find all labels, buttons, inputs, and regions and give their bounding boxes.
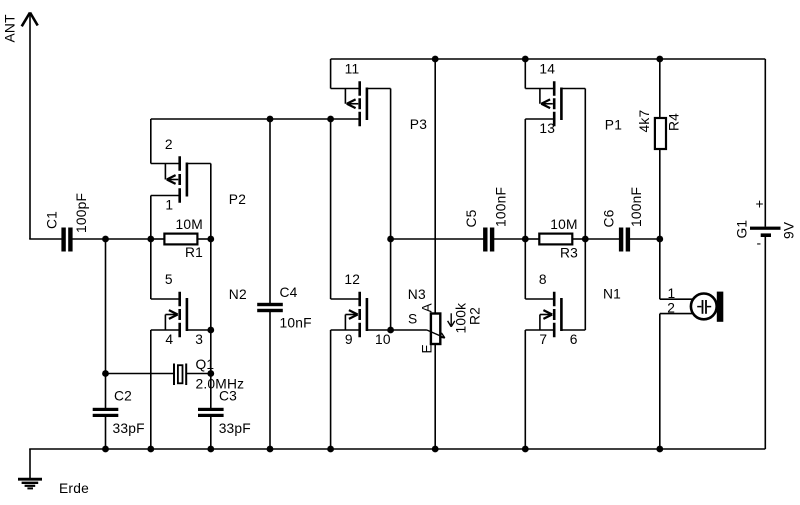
svg-text:10M: 10M bbox=[550, 217, 577, 232]
junction ground speaker bbox=[656, 446, 663, 453]
wire pin 13 column bbox=[525, 119, 553, 299]
svg-text:9V: 9V bbox=[782, 221, 797, 239]
svg-text:C2: C2 bbox=[114, 388, 132, 403]
pot direction arrow bbox=[448, 313, 455, 327]
junction stage3 output bbox=[522, 236, 529, 243]
wire P1 gate lead bbox=[561, 88, 585, 90]
svg-text:10nF: 10nF bbox=[280, 316, 312, 331]
svg-text:N3: N3 bbox=[408, 287, 426, 302]
junction rail N3 column bbox=[327, 116, 334, 123]
svg-text:R1: R1 bbox=[185, 245, 203, 260]
svg-text:10M: 10M bbox=[176, 217, 203, 232]
wire P3 drain / N3 drain column bbox=[331, 119, 359, 299]
wire C6 to R4 node bbox=[628, 238, 660, 240]
wire pot column top bbox=[434, 59, 436, 314]
wire crystal leads bbox=[106, 373, 211, 375]
wire N1 gate lead bbox=[561, 329, 585, 331]
svg-text:ANT: ANT bbox=[3, 14, 18, 43]
junction R1 left bbox=[147, 236, 154, 243]
transistor P2 (PMOS pins 2,1) bbox=[165, 156, 187, 203]
svg-text:12: 12 bbox=[344, 272, 360, 287]
wire pin 7 to ground bbox=[525, 330, 553, 449]
junction ground pin9 bbox=[327, 446, 334, 453]
capacitor C4 bbox=[257, 303, 283, 312]
svg-text:1: 1 bbox=[165, 198, 173, 213]
svg-text:N2: N2 bbox=[229, 287, 247, 302]
svg-text:C1: C1 bbox=[44, 211, 59, 229]
svg-text:2: 2 bbox=[667, 301, 675, 316]
junction ground pin7 bbox=[522, 446, 529, 453]
svg-text:4k7: 4k7 bbox=[637, 110, 652, 133]
wire N2 gate lead bbox=[187, 329, 211, 331]
svg-text:13: 13 bbox=[539, 121, 555, 136]
wire speaker pin 2 to ground bbox=[660, 314, 693, 449]
svg-text:100nF: 100nF bbox=[629, 187, 644, 227]
junction top R4 bbox=[656, 56, 663, 63]
junction ground C2 bbox=[102, 446, 109, 453]
svg-text:5: 5 bbox=[165, 272, 173, 287]
wire R1 leads bbox=[151, 238, 211, 240]
svg-text:+: + bbox=[756, 197, 764, 212]
wire rail (P2 source / P3 drain net) bbox=[151, 118, 359, 120]
svg-text:3: 3 bbox=[195, 332, 203, 347]
wire C5 to node bbox=[492, 238, 525, 240]
resistor R1 bbox=[164, 234, 197, 245]
wire R3 leads bbox=[525, 238, 585, 240]
svg-text:6: 6 bbox=[570, 332, 578, 347]
svg-text:Q1: Q1 bbox=[196, 357, 215, 372]
wire pin 1 to drain node bbox=[151, 196, 179, 300]
junction gate3 R3 C6 bbox=[582, 236, 589, 243]
wire stage2 gate column bbox=[390, 89, 392, 331]
wire top supply rail bbox=[331, 58, 766, 60]
svg-text:E: E bbox=[420, 344, 435, 353]
wire C4 column bbox=[269, 119, 271, 449]
svg-text:14: 14 bbox=[539, 62, 555, 77]
wire R4 top lead bbox=[659, 59, 661, 118]
wire speaker pin 1 bbox=[660, 239, 693, 299]
wire R4 bottom lead bbox=[659, 149, 661, 239]
wire ground rail bbox=[29, 448, 765, 450]
capacitor C3 bbox=[198, 408, 224, 417]
svg-text:C5: C5 bbox=[464, 209, 479, 227]
junction R1 right bbox=[207, 236, 214, 243]
battery G1 bbox=[750, 227, 781, 237]
capacitor C2 bbox=[93, 408, 119, 417]
capacitor C1 bbox=[61, 228, 72, 252]
transistor N2 (NMOS pins 5,4,3) bbox=[165, 292, 187, 338]
wire gate3 to C6 bbox=[585, 238, 621, 240]
svg-text:P2: P2 bbox=[229, 192, 246, 207]
svg-text:S: S bbox=[408, 312, 417, 327]
wire battery top lead bbox=[764, 59, 766, 227]
wire pot column bottom bbox=[434, 344, 436, 449]
junction ground C4 bbox=[267, 446, 274, 453]
svg-text:4: 4 bbox=[165, 332, 173, 347]
node ANT antenna arrow bbox=[22, 13, 38, 240]
svg-text:33pF: 33pF bbox=[113, 421, 145, 436]
svg-text:Erde: Erde bbox=[59, 481, 89, 496]
junction crystal left bbox=[102, 370, 109, 377]
svg-text:7: 7 bbox=[539, 332, 547, 347]
svg-text:8: 8 bbox=[539, 272, 547, 287]
wire N3 gate lead bbox=[367, 329, 391, 331]
transistor N3 (NMOS pins 12,9,10) bbox=[345, 292, 367, 338]
wire node A to R1 bbox=[106, 238, 151, 240]
wire stage3 gate column bbox=[584, 89, 586, 331]
capacitor C6 bbox=[619, 228, 630, 252]
svg-text:33pF: 33pF bbox=[219, 421, 251, 436]
junction N2 gate bbox=[207, 327, 214, 334]
wire pin 9 to ground bbox=[331, 330, 359, 449]
junction crystal right bbox=[207, 370, 214, 377]
junction ground C3 bbox=[207, 446, 214, 453]
svg-text:2: 2 bbox=[165, 137, 173, 152]
wire pot wiper bbox=[391, 330, 445, 338]
junction rail C4 bbox=[267, 116, 274, 123]
svg-text:R2: R2 bbox=[468, 307, 483, 325]
svg-text:C4: C4 bbox=[280, 285, 298, 300]
svg-text:C6: C6 bbox=[601, 209, 616, 227]
svg-text:9: 9 bbox=[345, 332, 353, 347]
ground earth symbol bbox=[18, 449, 42, 488]
resistor R4 bbox=[655, 118, 666, 149]
wire pin 4 to ground bbox=[151, 330, 179, 449]
junction node A bbox=[102, 236, 109, 243]
wire P2 gate lead bbox=[187, 163, 211, 165]
potentiometer R2 body bbox=[431, 314, 440, 345]
svg-text:100k: 100k bbox=[454, 303, 469, 334]
svg-text:P3: P3 bbox=[410, 117, 427, 132]
junction gate2 C5 bbox=[387, 236, 394, 243]
junction top pin14 bbox=[522, 56, 529, 63]
svg-text:C3: C3 bbox=[219, 388, 237, 403]
wire battery bottom lead bbox=[764, 237, 766, 449]
transistor P1 (PMOS pins 14,13) bbox=[540, 81, 562, 126]
svg-text:100nF: 100nF bbox=[493, 187, 508, 227]
wire P3 gate lead bbox=[367, 88, 391, 90]
wire C1 leads bbox=[29, 238, 105, 240]
svg-text:A: A bbox=[420, 303, 435, 313]
capacitor C5 bbox=[483, 228, 494, 252]
svg-text:N1: N1 bbox=[603, 287, 621, 302]
junction R4 C6 speaker bbox=[656, 236, 663, 243]
transistor P3 (PMOS pin 11) bbox=[345, 81, 367, 126]
svg-text:R3: R3 bbox=[560, 245, 578, 260]
wire VDD2 rail to pin 2 bbox=[151, 119, 179, 164]
transistor N1 (NMOS pins 8,7,6) bbox=[540, 292, 562, 338]
resistor R3 bbox=[539, 234, 572, 245]
junction gate2 wiper bbox=[387, 327, 394, 334]
junction top pot column bbox=[432, 56, 439, 63]
wire gate2 to C5 bbox=[391, 238, 486, 240]
svg-text:R4: R4 bbox=[667, 113, 682, 131]
svg-text:100pF: 100pF bbox=[74, 193, 89, 233]
wire pin 14 bbox=[525, 59, 553, 89]
wire node A column down bbox=[105, 239, 107, 449]
wire pin 11 bbox=[331, 59, 359, 89]
svg-text:-: - bbox=[757, 236, 762, 251]
svg-text:10: 10 bbox=[375, 332, 391, 347]
svg-text:P1: P1 bbox=[605, 118, 622, 133]
svg-text:11: 11 bbox=[345, 62, 360, 77]
wire gate column bbox=[210, 164, 212, 450]
svg-text:G1: G1 bbox=[735, 220, 750, 239]
crystal Q1 bbox=[174, 364, 186, 386]
junction ground pot bbox=[432, 446, 439, 453]
speaker LS1 bbox=[691, 292, 723, 322]
junction ground pin4 bbox=[147, 446, 154, 453]
svg-text:1: 1 bbox=[668, 286, 676, 301]
